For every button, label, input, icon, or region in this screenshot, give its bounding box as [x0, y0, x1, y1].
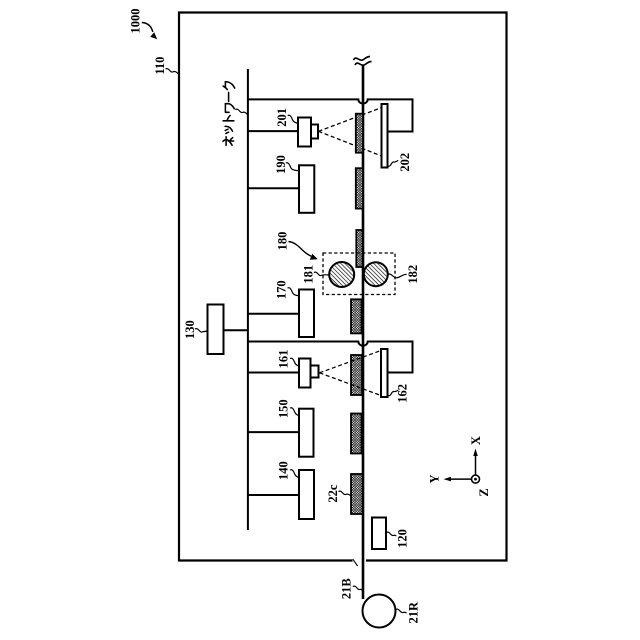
- svg-text:182: 182: [406, 265, 420, 284]
- leader squiggle 140: [290, 470, 299, 478]
- coating patch #4: [351, 299, 362, 333]
- ne: [223, 137, 234, 146]
- camera 161 body: [299, 359, 311, 388]
- leader squiggle 120: [386, 532, 396, 536]
- svg-text:130: 130: [183, 320, 197, 339]
- wire: stub to 150: [248, 431, 299, 433]
- leader squiggle 22c: [339, 491, 351, 495]
- svg-text:1000: 1000: [129, 9, 143, 34]
- wire: stub to camera 161: [248, 372, 299, 374]
- box 170: [299, 290, 314, 338]
- svg-text:120: 120: [396, 529, 410, 548]
- label network (katakana): [223, 82, 235, 146]
- coating patch #3: [356, 230, 362, 267]
- leader squiggle 21B: [353, 586, 363, 590]
- wire: network bus line: [247, 69, 249, 530]
- svg-text:Y: Y: [428, 474, 442, 483]
- arrow from label 180: [289, 242, 318, 260]
- roller 21R: [363, 595, 396, 628]
- wire: stub to 140: [248, 494, 299, 496]
- wire: stub to camera 201: [248, 130, 298, 132]
- stage plate 162: [381, 349, 388, 397]
- coating patch #2: [356, 168, 363, 208]
- svg-text:22c: 22c: [326, 484, 340, 503]
- svg-text:150: 150: [277, 399, 291, 418]
- leader squiggle 170: [288, 288, 300, 296]
- camera 201 lens: [311, 125, 318, 139]
- imaging cone camera 201 (dashed): [319, 108, 382, 156]
- web/substrate line 21B: [362, 65, 365, 600]
- camera 201 body: [298, 118, 311, 147]
- enclosure box 110: [179, 13, 507, 561]
- roller 182: [364, 262, 388, 286]
- leader squiggle 202: [388, 160, 399, 166]
- stage plate 202: [382, 104, 388, 168]
- wire: stub to 170: [248, 313, 299, 315]
- coating patch 22c: [351, 474, 363, 514]
- svg-text:202: 202: [398, 153, 412, 172]
- break tick on enclosure bottom edge: [353, 559, 358, 566]
- web break symbol at top: [354, 57, 372, 66]
- svg-text:162: 162: [396, 384, 410, 403]
- camera 161 lens: [311, 366, 319, 378]
- wire: stub to 190: [248, 187, 299, 189]
- svg-text:180: 180: [276, 232, 290, 251]
- roller 181: [329, 262, 354, 287]
- svg-text:X: X: [469, 436, 483, 445]
- leader squiggle 201: [288, 115, 298, 123]
- imaging cone camera 161 (dashed): [320, 351, 382, 396]
- coating patch #5: [351, 355, 362, 395]
- wire: stub from 130 to bus: [224, 329, 248, 331]
- arrow from label 1000: [142, 23, 157, 40]
- leader squiggle 182: [388, 274, 407, 278]
- leader squiggle 130: [195, 329, 208, 333]
- leader squiggle 150: [290, 408, 299, 416]
- svg-text:190: 190: [274, 155, 288, 174]
- coating patch #6: [351, 414, 362, 454]
- svg-text:181: 181: [302, 265, 316, 284]
- ku: [223, 82, 235, 90]
- coating patch #1: [356, 114, 363, 153]
- box 120: [372, 518, 386, 550]
- axis Z origin symbol: [472, 475, 480, 483]
- axis X arrow: [475, 454, 477, 479]
- wire: branch to stage 162 with crossover hop: [248, 342, 413, 373]
- leader squiggle 162: [388, 390, 399, 396]
- box 140: [299, 470, 314, 519]
- svg-text:161: 161: [277, 350, 291, 369]
- inspection unit 180 dashed box: [323, 253, 395, 295]
- svg-text:21B: 21B: [340, 578, 354, 599]
- svg-text:201: 201: [275, 108, 289, 127]
- small tsu: [225, 126, 232, 133]
- svg-text:21R: 21R: [407, 601, 421, 624]
- leader squiggle 181: [314, 272, 329, 276]
- svg-text:Z: Z: [477, 488, 491, 496]
- leader squiggle 110: [166, 69, 179, 74]
- to: [223, 115, 234, 120]
- svg-text:140: 140: [277, 461, 291, 480]
- wire: branch to stage 202 with crossover hop: [248, 99, 413, 131]
- svg-text:110: 110: [153, 57, 167, 75]
- leader squiggle 161: [290, 358, 299, 366]
- leader squiggle 21R: [396, 609, 407, 613]
- wa: [225, 104, 234, 113]
- long vowel: [228, 92, 230, 101]
- box 190: [299, 165, 314, 213]
- axis Y arrow: [449, 478, 476, 480]
- controller box 130: [208, 305, 224, 355]
- box 150: [299, 409, 314, 457]
- leader squiggle network: [235, 109, 247, 114]
- svg-text:170: 170: [275, 280, 289, 299]
- leader squiggle 190: [286, 163, 299, 171]
- coordinate axes: [428, 436, 491, 496]
